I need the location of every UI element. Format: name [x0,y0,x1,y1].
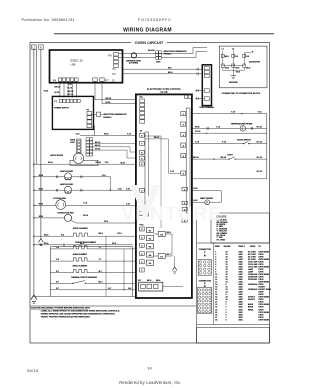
L2 second lead wire [35,49,37,164]
svg-text:BLACK: BLACK [148,49,155,52]
broil element 2 [72,269,88,272]
relay K2 [147,236,154,241]
svg-text:LAMP HOLDER: LAMP HOLDER [60,170,74,173]
svg-text:INDUCTION GENERATOR: INDUCTION GENERATOR [103,113,127,116]
cooling fan motor [56,200,66,210]
latch connector strip [86,138,89,141]
lamp1 riser [109,177,111,190]
wires into terminal block lower [195,90,204,92]
svg-text:W-18: W-18 [44,91,48,93]
chassis ground inside EOC [174,256,176,267]
svg-text:CAPACITOR: CAPACITOR [249,61,261,64]
svg-text:CNTR 60UIB: CNTR 60UIB [258,319,269,321]
relay K3 [147,244,154,249]
oven cavity boundary box [49,247,51,297]
svg-text:LIGHT: LIGHT [227,154,234,156]
sensor inline connectors [63,244,65,247]
svg-text:BK-18: BK-18 [154,137,159,139]
svg-text:BAKE ELEMENT: BAKE ELEMENT [73,253,88,256]
svg-text:B-8: B-8 [128,288,131,290]
svg-text:UIB: UIB [71,62,76,66]
svg-text:W-8: W-8 [168,67,171,69]
svg-text:GY- GRAY: GY- GRAY [217,238,227,241]
fuse F1 [92,113,97,115]
svg-text:GN-8: GN-8 [225,68,229,70]
chassis ground bottom left [31,295,37,303]
svg-text:B-8: B-8 [246,56,249,58]
svg-text:GROUND: GROUND [229,82,238,84]
convection element [72,246,88,249]
thermal circuit breaker wire [50,282,72,284]
svg-text:O-8: O-8 [56,259,59,261]
svg-text:28: 28 [215,319,217,321]
wire table bottom line [197,324,270,326]
connector B pin grid [197,288,211,314]
bake element [72,258,88,261]
svg-text:CONNECTED TO CONNECTOR BLOCK: CONNECTED TO CONNECTOR BLOCK [222,93,261,95]
convection fan tail [71,220,77,223]
svg-text:PK-8: PK-8 [112,243,116,245]
svg-text:R-7: R-7 [56,271,59,273]
svg-text:P2: P2 [113,72,117,76]
inline plug marks P1 P2 wires [196,68,198,71]
svg-text:O-8: O-8 [56,247,59,249]
svg-text:BROIL ELEMENT: BROIL ELEMENT [73,228,89,230]
svg-text:BR-8: BR-8 [225,56,229,58]
svg-text:W-7: W-7 [138,280,141,282]
connector A pin grid [198,260,211,276]
L2 bus wire [33,49,35,296]
svg-text:BR-8: BR-8 [99,233,103,235]
diagram outer border [30,43,270,344]
svg-text:W-14: W-14 [39,215,43,218]
svg-text:ELECTRONIC OVEN CONTROL: ELECTRONIC OVEN CONTROL [147,89,182,91]
lamp holder 2 wire [34,189,65,191]
OVEN CIRCUIT title [131,39,167,46]
mid risers [105,236,107,296]
temperature probe wire [192,127,240,129]
inline connectors lamp1 [56,176,58,179]
svg-text:Y-7: Y-7 [99,259,102,261]
svg-text:Y-7: Y-7 [99,247,102,249]
right bus wire [266,114,268,179]
svg-text:BK-18: BK-18 [106,98,113,100]
connector MC8 [156,51,159,54]
svg-text:GY-18: GY-18 [257,127,262,129]
svg-text:MEAT PROBE: MEAT PROBE [200,197,213,200]
svg-text:BK-8: BK-8 [167,232,171,234]
svg-text:B-18: B-18 [194,188,198,190]
svg-text:Rendered by LeadVenture, Inc.: Rendered by LeadVenture, Inc. [119,380,181,385]
thermal circuit breaker contact [72,283,73,284]
svg-text:BK-8: BK-8 [147,280,151,282]
svg-text:BR-18: BR-18 [55,86,62,88]
convection fan wire [34,217,65,219]
wire ESEC P2 to terminal block [123,73,203,75]
terminal block connector [202,65,211,106]
temperature probe sensor [240,126,245,131]
svg-text:CONVECTION FAN: CONVECTION FAN [57,212,74,215]
power supply box [52,96,93,129]
terminal N [39,45,44,49]
svg-text:PK-8: PK-8 [118,233,122,235]
svg-text:60 UIB: 60 UIB [160,92,167,94]
svg-text:DOOR SWITCH: DOOR SWITCH [237,140,251,142]
svg-text:LOCK: LOCK [70,142,76,144]
svg-text:DOOR.SW: DOOR.SW [248,279,257,281]
oven sensor row [34,244,63,246]
filter component GN-8 [221,64,224,67]
svg-text:THERMAL CIRCUIT BREAKER: THERMAL CIRCUIT BREAKER [71,276,98,279]
svg-text:R-7: R-7 [56,282,59,284]
door switch wire [192,143,243,145]
oven light wire [192,158,229,160]
svg-text:WIRING ERRORS CAN CAUSE IMPROP: WIRING ERRORS CAN CAUSE IMPROPER AND DAN… [41,313,116,316]
svg-text:BK-8: BK-8 [168,72,172,74]
wires P9 to magnetic ring [118,53,156,55]
main W-14 bus wire [34,163,136,165]
wire EOC to bus top [192,113,267,115]
svg-text:(2 TURNS): (2 TURNS) [129,63,138,65]
terminal L2 [32,45,37,49]
earth ground symbol [232,70,234,76]
colors legend box [211,213,270,243]
connector J1 sub box [139,282,163,291]
cooling fan wire [34,204,56,206]
probe return wire [192,132,267,134]
svg-text:R-8: R-8 [235,56,238,58]
svg-text:R-8: R-8 [61,234,64,236]
svg-text:DOOR.T: DOOR.T [248,299,256,301]
svg-text:Y-18: Y-18 [195,142,199,144]
wire power supply to EOC J5 [92,125,95,127]
svg-text:GN-8: GN-8 [235,68,239,70]
relay contact K6 [158,232,165,237]
svg-text:P1: P1 [113,67,117,71]
svg-text:N: N [40,45,42,49]
svg-text:14: 14 [147,365,152,370]
door switch contact [243,143,244,144]
svg-text:BK-8: BK-8 [246,68,250,70]
svg-text:CONN.BLK: CONN.BLK [248,289,258,291]
internal wires to P11 [145,138,169,140]
broil element wire [34,235,72,237]
svg-text:Y-18: Y-18 [105,162,109,164]
svg-text:250C: 250C [239,319,244,321]
convection element wire [50,248,72,250]
svg-text:BK-18: BK-18 [68,91,75,93]
svg-text:W-14: W-14 [44,233,48,236]
svg-text:Y-18: Y-18 [258,112,262,114]
filter junction bus [223,69,245,71]
node induction generator phase 2 [101,113,103,115]
svg-text:Y-18: Y-18 [170,171,174,173]
svg-text:BR-8: BR-8 [156,280,160,282]
svg-text:8: 8 [226,319,227,321]
svg-text:BK-7: BK-7 [99,282,103,284]
svg-text:J2: J2 [112,78,115,82]
svg-text:BK-7: BK-7 [167,254,171,256]
connector P11 backing strip [186,108,190,213]
svg-text:VERIFY PROPER OPERATION AFTER: VERIFY PROPER OPERATION AFTER SERVICING. [41,315,91,318]
wire P5 to EOC P8 [94,81,96,99]
svg-text:FGIS3065PFC: FGIS3065PFC [138,18,172,22]
relay K5 [147,260,154,265]
door lock switch column [77,139,82,153]
svg-text:W-18: W-18 [104,134,108,136]
svg-text:GAUGE: GAUGE [224,245,232,248]
svg-text:W-14: W-14 [39,174,43,177]
lamp holder 1 [65,173,72,180]
svg-text:PHASE 2: PHASE 2 [103,116,111,119]
lower crossing wire [50,289,136,291]
electronic oven control EOC box [136,94,192,298]
chassis ground on N bus [38,239,43,246]
svg-text:W-18: W-18 [195,127,199,129]
relay K4 [147,252,154,257]
svg-text:TEMP C: TEMP C [238,246,246,248]
svg-text:P-18: P-18 [222,142,226,144]
meat probe jack [205,200,210,205]
connector J4 [185,95,188,98]
induction generator filter box [219,46,267,88]
svg-text:PHASE 1: PHASE 1 [164,53,172,56]
J5 backing strip [145,132,149,216]
broil element [72,233,89,236]
wire risers inside EOC [171,234,173,256]
title underline rule [54,33,274,35]
svg-text:WIRING DIAGRAM: WIRING DIAGRAM [123,27,172,33]
svg-text:P4: P4 [53,78,57,82]
latch motor base [70,160,98,165]
relay contact K7 [158,254,165,259]
connector P5 [93,78,97,81]
magnetic ring (2 turns) [131,53,136,58]
wire P6 to EOC P8 [101,81,103,103]
inline connectors lamp2 [56,189,58,192]
broil element 2 wire [50,272,72,274]
N bus wire [40,49,42,238]
notes divider line [30,305,197,307]
svg-text:PK-14: PK-14 [83,214,88,217]
svg-text:GY-18: GY-18 [195,131,200,133]
wire ESEC P1 to terminal block [123,68,203,70]
relay K1 [147,227,154,232]
P4 harness wires [59,81,61,97]
svg-text:BROIL: BROIL [248,309,254,311]
right side lower return wire [192,178,267,180]
filter wires [222,50,224,65]
svg-text:Y-18: Y-18 [127,134,131,136]
filter component B-8 [243,54,246,57]
svg-text:Publication No. 5995661781: Publication No. 5995661781 [22,18,75,22]
bake element wire [50,260,72,262]
lamp holder 2 [65,186,72,193]
svg-text:FROM: FROM [250,246,256,248]
svg-text:CONN.BLK: CONN.BLK [248,284,258,286]
svg-text:GY-18: GY-18 [68,94,75,96]
svg-text:LATCH MOTOR: LATCH MOTOR [50,154,64,157]
svg-text:B-7: B-7 [108,288,111,290]
svg-text:Y-18: Y-18 [76,134,80,136]
svg-text:OVEN CIRCUIT: OVEN CIRCUIT [135,40,164,45]
svg-text:BK-14: BK-14 [221,156,227,159]
filter component BR-8 [221,54,224,57]
svg-text:06/15: 06/15 [27,368,39,373]
filter component R-8 [232,54,235,57]
svg-text:TEMPERATURE PROBE: TEMPERATURE PROBE [231,123,253,126]
lamp holder 1 wire [34,176,65,178]
filter component BK-8 [243,64,246,67]
svg-text:BROIL ELEMENT: BROIL ELEMENT [73,265,89,267]
svg-text:P7: P7 [105,78,109,82]
bottom note box [197,328,270,344]
svg-text:W-14: W-14 [44,242,48,245]
svg-text:PK-8: PK-8 [104,221,108,223]
wires MC8 to terminal block [161,53,193,55]
connector P12 right column lower [182,187,187,191]
svg-text:P9: P9 [108,54,112,58]
svg-text:GN-8: GN-8 [236,71,240,73]
svg-text:W-14: W-14 [39,187,43,190]
meat probe wire loop [192,190,222,192]
svg-text:BK-14: BK-14 [193,156,199,159]
inline connector marks probe [206,127,208,130]
svg-text:W-14: W-14 [39,202,43,205]
svg-text:LAMP HOLDER: LAMP HOLDER [60,183,74,186]
svg-text:Y-18: Y-18 [231,112,235,114]
svg-text:POWER SUPPLY: POWER SUPPLY [54,107,70,109]
right column divider [196,213,198,343]
svg-text:LABEL ALL WIRES PRIOR TO DISCO: LABEL ALL WIRES PRIOR TO DISCONNECTION W… [41,310,121,313]
svg-text:VENTURE: VENTURE [121,204,222,225]
connector P6 [100,78,104,81]
svg-text:OVEN TERMINAL: OVEN TERMINAL [199,106,215,109]
latch wires to EOC [93,143,136,145]
J1 tail wire [163,286,183,288]
svg-text:R-7: R-7 [56,288,59,290]
wire table divider [197,242,270,244]
bottom wire to ground [34,296,136,298]
svg-text:W-7: W-7 [99,271,102,273]
svg-text:WIRE: WIRE [215,246,221,248]
svg-text:B-18: B-18 [194,200,198,202]
svg-text:P3: P3 [54,99,58,103]
filter component GN-8b [232,64,235,67]
connector P11 right column [181,112,186,116]
svg-text:GN-18: GN-18 [96,162,101,164]
controller ESEC 20 UIB [50,50,123,83]
svg-text:CONVECTION ELEMENT: CONVECTION ELEMENT [75,242,97,244]
convection fan motor [64,214,71,221]
